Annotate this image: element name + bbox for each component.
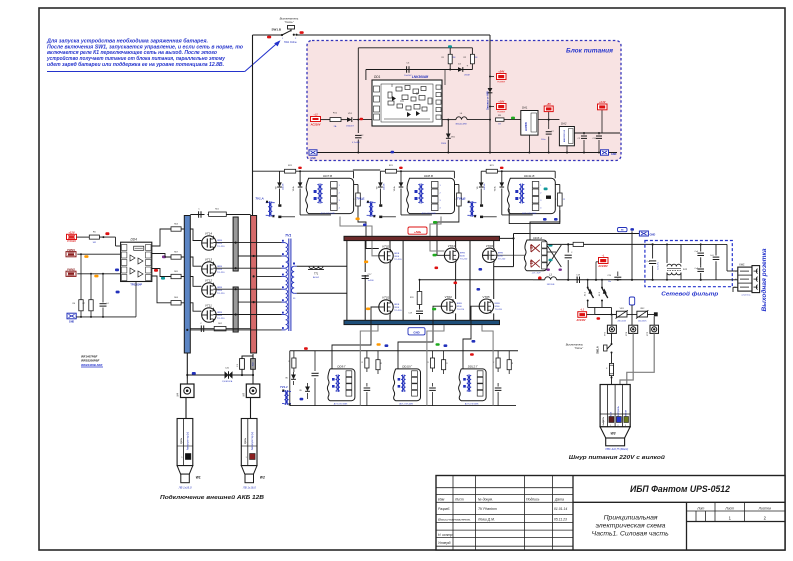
svg-text:2M: 2M — [475, 57, 478, 59]
resistor R2 — [463, 48, 477, 70]
svg-text:Разраб.: Разраб. — [438, 507, 450, 511]
resistor pair DD9.Г — [362, 351, 383, 374]
svg-text:K1.1: K1.1 — [585, 292, 587, 296]
gate resistor R07 — [152, 251, 202, 266]
tick purple dd4 — [162, 256, 166, 259]
tick blue bm1 — [385, 344, 389, 347]
title block grid — [436, 476, 785, 551]
svg-text:3206: 3206 — [394, 307, 400, 309]
svg-text:Н. контр.: Н. контр. — [438, 533, 453, 537]
svg-text:+ОТ_ЗСР: +ОТ_ЗСР — [531, 273, 541, 275]
label PWM2 — [66, 271, 76, 276]
svg-text:DD12.Г: DD12.Г — [468, 364, 478, 368]
svg-text:TV1: TV1 — [285, 234, 291, 238]
svg-text:W2: W2 — [260, 476, 265, 480]
svg-text:VT02: VT02 — [382, 244, 390, 248]
wire feed DD8 — [353, 169, 380, 171]
power supply block Блок питания — [307, 41, 621, 161]
capacitor C16 — [100, 274, 110, 317]
svg-text:IRFB: IRFB — [394, 304, 400, 306]
svg-text:DD11.В: DD11.В — [524, 174, 534, 178]
wire PWM1 — [77, 253, 120, 255]
svg-text:GND: GND — [69, 321, 75, 324]
svg-text:VT01: VT01 — [382, 296, 390, 300]
resistor R supply DD11.В — [481, 165, 555, 178]
bus bar +U horizontal — [344, 236, 500, 240]
bus bar red vertical — [251, 216, 257, 354]
svg-text:+5V: +5V — [547, 103, 552, 106]
svg-text:AC230V: AC230V — [575, 319, 585, 322]
transformer TV1.3 — [280, 385, 291, 406]
driver module row DD7.B — [0, 0, 1, 1]
shunt R44 — [251, 359, 256, 370]
inductor L4 — [455, 113, 491, 126]
svg-text:Шнур питания 220V с вилкой: Шнур питания 220V с вилкой — [569, 454, 666, 461]
label +24V — [489, 70, 506, 83]
tick orange pwm1 — [84, 255, 88, 258]
resistor R7 pulldown — [82, 274, 93, 317]
relay contact K1.1 — [585, 279, 594, 308]
svg-text:TO-220: TO-220 — [217, 272, 225, 274]
label AC230V relay — [596, 254, 608, 280]
bus bar gray upper — [233, 217, 238, 271]
gate wires bottom row — [332, 306, 479, 369]
terminal post W4 — [177, 379, 195, 398]
svg-text:TO-220: TO-220 — [217, 293, 225, 295]
svg-text:Левш Д.М.: Левш Д.М. — [477, 517, 495, 521]
svg-text:3206: 3206 — [394, 256, 400, 258]
wire module outputs to gates — [340, 206, 560, 256]
primary wires — [186, 242, 281, 332]
svg-text:VT05: VT05 — [482, 295, 490, 299]
zener VD-A DD8.В — [382, 171, 432, 217]
svg-text:LL4148: LL4148 — [283, 184, 285, 190]
svg-text:10R: 10R — [92, 242, 96, 244]
wire bias — [366, 69, 473, 81]
resistor R41 — [289, 351, 296, 372]
svg-text:AMS1117-3.3: AMS1117-3.3 — [563, 129, 566, 142]
svg-text:TO-220: TO-220 — [394, 259, 402, 261]
svg-text:GND: GND — [650, 233, 656, 237]
svg-text:VT04: VT04 — [448, 244, 456, 248]
wire top from SW1 to power block — [253, 34, 491, 36]
wire — [341, 119, 347, 121]
svg-text:IRFB3306B-NDF: IRFB3306B-NDF — [81, 363, 103, 367]
resistor R5 — [89, 231, 99, 244]
tick teal dd4 — [161, 277, 165, 280]
wire to IC — [353, 119, 372, 121]
wire to lug W2 — [250, 398, 252, 419]
wire feed DD8.В — [0, 0, 1, 1]
output wire inverter — [419, 279, 534, 281]
mains filter box — [645, 241, 732, 298]
svg-text:VD-А: VD-А — [292, 186, 295, 191]
svg-text:"Сеть": "Сеть" — [574, 346, 584, 350]
svg-text:Блок питания: Блок питания — [566, 48, 613, 55]
label AC230V input — [310, 113, 321, 126]
tick blue gate1 — [363, 224, 367, 227]
tick red DD7.В — [298, 167, 302, 169]
svg-text:+12V: +12V — [68, 231, 74, 235]
label +12V — [67, 234, 77, 239]
tick blue gnd mid — [391, 151, 395, 154]
svg-text:TO-220: TO-220 — [460, 258, 468, 260]
capacitor out DD12.Г — [495, 383, 502, 406]
tick orange vt01 — [366, 308, 370, 311]
svg-text:Аккумулятор [+]: Аккумулятор [+] — [251, 432, 254, 451]
svg-text:Опасные от АКБ: Опасные от АКБ — [487, 91, 490, 110]
svg-text:Выключатель: Выключатель — [566, 343, 584, 347]
resistor pair DD12.Г — [493, 351, 514, 374]
svg-text:3206: 3206 — [217, 290, 223, 292]
tick red sw1 left — [267, 36, 271, 39]
tick red bm3 — [470, 353, 474, 356]
svg-text:XP3: XP3 — [647, 331, 649, 337]
varistor VR2 — [636, 308, 648, 322]
resistor pair DD10.Г — [427, 351, 448, 374]
svg-text:4,7u/400: 4,7u/400 — [352, 142, 361, 144]
tick red — [360, 118, 364, 120]
wire feed DD11.В — [0, 0, 1, 1]
svg-text:1u/630: 1u/630 — [368, 280, 375, 282]
wire bus to battery left — [186, 353, 188, 379]
gray wire cord N — [620, 333, 633, 384]
svg-text:+АКБ: +АКБ — [414, 230, 421, 234]
net label N1 — [618, 228, 628, 232]
wire bus feed to relay — [500, 234, 514, 239]
bus bar gray lower — [233, 287, 238, 332]
svg-text:DD1: DD1 — [374, 75, 381, 79]
wire L mains — [547, 243, 654, 245]
svg-text:X2-0,47u: X2-0,47u — [658, 262, 660, 270]
svg-text:SW1.В: SW1.В — [271, 28, 281, 32]
zener VD13 — [299, 383, 310, 399]
svg-text:TV1.В: TV1.В — [457, 197, 466, 201]
svg-text:W1: W1 — [196, 476, 201, 480]
capacitor C2 — [352, 120, 364, 153]
tick green — [511, 117, 515, 120]
wire feed DD7.В — [253, 170, 280, 172]
svg-text:№ докум.: № докум. — [478, 498, 493, 502]
relay module DD6.A — [524, 236, 547, 275]
tick blue vt06 — [479, 268, 483, 271]
bus bar blue vertical — [184, 216, 190, 354]
svg-text:LNK3604M: LNK3604M — [412, 75, 429, 79]
gate resistor R06 — [152, 276, 202, 311]
svg-text:IRFB: IRFB — [495, 303, 501, 305]
label GND mains — [639, 231, 655, 237]
svg-text:TV1.А: TV1.А — [255, 197, 264, 201]
ground rail of power block — [311, 152, 617, 154]
connector XP2 — [605, 315, 617, 338]
wire IC output — [442, 70, 456, 120]
wire contacts join — [588, 308, 612, 315]
resistor gate DD7.В — [353, 185, 364, 207]
svg-text:TV1.Б: TV1.Б — [356, 197, 364, 201]
svg-text:VT14: VT14 — [205, 232, 213, 236]
svg-text:05.11.23: 05.11.23 — [554, 517, 567, 521]
svg-text:~L2: ~L2 — [313, 113, 318, 116]
svg-text:Нейтраль: Нейтраль — [616, 405, 620, 418]
diode D4 — [453, 64, 472, 77]
tick red dd4 right — [154, 269, 158, 272]
svg-text:ТТ1: ТТ1 — [314, 272, 319, 276]
svg-text:идет заряд батареи или поддерж: идет заряд батареи или поддержка ее на у… — [47, 61, 224, 68]
svg-text:GND: GND — [611, 153, 617, 156]
transistor VT13 — [202, 262, 216, 276]
fuse F2 — [606, 363, 613, 384]
ground rail left — [76, 282, 136, 318]
relay contact K1.2 — [599, 279, 608, 308]
svg-text:VT11: VT11 — [205, 304, 212, 308]
svg-text:ЛВ 1х16,0: ЛВ 1х16,0 — [178, 486, 192, 490]
svg-text:+24V: +24V — [498, 70, 504, 73]
gray return wires — [360, 325, 493, 406]
tick orange bm1 — [377, 343, 381, 346]
filter wires — [653, 244, 738, 292]
svg-text:SW1 Online: SW1 Online — [284, 41, 297, 44]
wire PWM2 — [77, 273, 120, 275]
svg-text:POWER: POWER — [67, 240, 76, 243]
svg-text:VT13: VT13 — [205, 258, 213, 262]
svg-text:20D-561K: 20D-561K — [638, 320, 647, 322]
label +5V — [544, 103, 553, 120]
transistor VT05 — [479, 299, 493, 313]
resistor R supply DD8.В — [380, 165, 454, 178]
svg-text:TO-220: TO-220 — [217, 318, 225, 320]
svg-text:3206: 3206 — [217, 315, 223, 317]
wire secondary bottom — [297, 292, 347, 294]
driver module DD10.Г — [393, 364, 421, 405]
tick red sw1 right — [300, 31, 304, 34]
svg-text:"Сеть": "Сеть" — [284, 20, 294, 24]
resistor R6 pulldown — [72, 254, 83, 317]
svg-text:LL4148: LL4148 — [484, 184, 486, 190]
svg-text:АОТ-ОЗУ-БМК: АОТ-ОЗУ-БМК — [334, 402, 348, 405]
svg-text:3206: 3206 — [217, 269, 223, 271]
IC DD1 LNK3604 — [372, 75, 442, 126]
resistor gate DD8.В — [454, 185, 465, 207]
svg-text:IRFB: IRFB — [217, 312, 223, 314]
svg-text:GND: GND — [413, 331, 419, 335]
svg-text:Принципиальная: Принципиальная — [604, 515, 659, 521]
tick red ac out — [597, 317, 601, 320]
svg-text:1N4007: 1N4007 — [346, 126, 354, 128]
svg-text:10n: 10n — [608, 281, 611, 283]
svg-text:P6KE: P6KE — [441, 143, 447, 145]
transistor VT03 — [441, 299, 455, 313]
svg-text:DA2: DA2 — [561, 122, 567, 126]
svg-text:01.01.14: 01.01.14 — [554, 507, 567, 511]
tick teal relay2 — [549, 259, 553, 262]
wire battery horizontal — [186, 374, 254, 376]
current transformer TT1 — [297, 266, 347, 268]
svg-text:POWER: POWER — [497, 111, 505, 113]
svg-text:IRFB: IRFB — [498, 252, 504, 254]
resistor gate DD11.В — [555, 185, 566, 207]
driver module DD12.Г — [459, 364, 486, 405]
svg-text:ПВС-3х0,75 (Black): ПВС-3х0,75 (Black) — [605, 447, 628, 451]
capacitor C9 — [578, 133, 588, 153]
net label +Uakb — [408, 227, 427, 234]
svg-text:1N2/5LB: 1N2/5LB — [547, 284, 555, 286]
diode VD DD8.В — [376, 171, 385, 204]
svg-text:DA1: DA1 — [522, 106, 528, 110]
svg-text:Выходная розетка: Выходная розетка — [760, 248, 768, 312]
gray wire cord PE — [627, 333, 654, 384]
svg-text:VD-А: VD-А — [393, 186, 396, 191]
diode VD DD7.В — [276, 171, 285, 204]
resistor R supply DD7.В — [280, 165, 354, 178]
svg-text:2M: 2M — [453, 57, 456, 59]
svg-text:+3.3V: +3.3V — [599, 101, 606, 104]
wire bus to battery right — [242, 354, 253, 375]
power cord connector W3 — [600, 385, 630, 451]
svg-text:W3: W3 — [610, 432, 615, 436]
svg-text:XP4: XP4 — [625, 331, 628, 337]
diode VD12 — [285, 372, 296, 385]
tick green vt03 — [432, 308, 436, 311]
svg-text:PWM1: PWM1 — [67, 248, 75, 252]
varistor VR1 — [616, 308, 628, 322]
svg-text:US1M: US1M — [464, 75, 470, 77]
svg-text:VT06: VT06 — [486, 244, 494, 248]
wire N mains — [533, 279, 653, 281]
svg-text:DD8.В: DD8.В — [424, 174, 433, 178]
svg-text:3206: 3206 — [495, 306, 501, 308]
capacitor Cx2 — [694, 266, 704, 281]
transistor VT04 — [444, 248, 458, 262]
current transformer TT1 body — [308, 270, 324, 280]
capacitor C7 — [538, 119, 559, 153]
wire mains input — [321, 119, 331, 121]
diode VD1 — [346, 113, 354, 128]
svg-text:АОТ-ОЗУ-БМК: АОТ-ОЗУ-БМК — [421, 212, 436, 215]
transformer TV1.Б — [356, 197, 382, 218]
IC DD4 — [121, 238, 152, 287]
transistor VT14 — [202, 236, 216, 250]
resistor R3 — [496, 115, 521, 126]
svg-text:TO-220: TO-220 — [394, 310, 402, 312]
tick green bm2 — [436, 343, 440, 346]
tick blue vt05 — [477, 288, 481, 291]
tick blue gate3b — [554, 218, 558, 221]
svg-text:+16V: +16V — [498, 100, 504, 103]
capacitor out DD9.Г — [364, 383, 371, 406]
label +3.3V — [598, 101, 608, 133]
wire varistor row — [595, 314, 655, 316]
tick blue bm2 — [444, 344, 448, 347]
capacitor C18 — [573, 274, 581, 283]
capacitor C relay — [565, 243, 573, 280]
svg-text:DD10.Г: DD10.Г — [402, 364, 412, 368]
inductor L3 — [545, 273, 557, 286]
transistor VT12 — [202, 283, 216, 297]
tick red upper — [435, 267, 439, 270]
svg-text:DD4: DD4 — [131, 238, 138, 242]
svg-text:Подключение внешней АКБ 12В: Подключение внешней АКБ 12В — [160, 494, 264, 501]
regulator DA2 — [559, 122, 574, 153]
decoupling bottom row — [190, 323, 250, 332]
svg-text:DD7.В: DD7.В — [323, 174, 332, 178]
junction block module3 — [546, 196, 551, 199]
battery lug W1 — [177, 419, 201, 490]
capacitor C10 — [593, 133, 603, 153]
transistor VT06 — [483, 248, 497, 262]
tick orange vt02 — [364, 261, 368, 264]
zener VD5 — [441, 119, 456, 153]
tick green vt04 — [433, 254, 437, 257]
driver module DD7.В — [306, 174, 354, 215]
battery lug W2 — [241, 419, 265, 490]
net label gnd power — [408, 328, 425, 335]
svg-text:TV1.3: TV1.3 — [280, 385, 288, 389]
svg-text:TO-220: TO-220 — [217, 246, 225, 248]
capacitor C19 snubber — [408, 305, 423, 321]
svg-text:POWER: POWER — [497, 81, 505, 83]
tick red bottom feed — [304, 347, 308, 350]
svg-text:XW1: XW1 — [738, 262, 745, 266]
svg-text:AC230V: AC230V — [310, 122, 321, 126]
tick red DD11.В — [500, 167, 504, 169]
svg-text:DD9.Г: DD9.Г — [337, 364, 346, 368]
diode VD TVS battery — [222, 368, 233, 383]
svg-text:Часть1. Силовая часть: Часть1. Силовая часть — [592, 532, 669, 538]
note underline and arrow to SW1 — [47, 40, 281, 71]
resistor R snubber mains — [573, 242, 583, 246]
tick red DD8.В — [399, 167, 403, 169]
svg-text:Восстановлена.: Восстановлена. — [438, 517, 471, 521]
tick blue bm3 — [472, 340, 476, 343]
driver module DD9.Г — [327, 364, 354, 405]
resistor R33 snubber — [410, 280, 422, 305]
svg-text:VT03: VT03 — [445, 295, 453, 299]
svg-text:Листов: Листов — [758, 506, 772, 510]
svg-text:Цепь: Цепь — [179, 437, 183, 444]
wire inverter L to relay — [494, 234, 640, 267]
label PWM1 — [66, 252, 76, 257]
svg-text:+: + — [467, 64, 469, 68]
svg-text:LM7805: LM7805 — [525, 122, 528, 131]
choke Lx1 — [666, 243, 688, 280]
svg-text:TPS2814P: TPS2814P — [130, 284, 142, 287]
transistor VT01 — [379, 300, 393, 314]
svg-text:IRFB3206PBF: IRFB3206PBF — [81, 359, 100, 363]
svg-text:Lx1: Lx1 — [683, 268, 688, 271]
regulator DA1 — [521, 106, 538, 153]
svg-text:Аккумулятор [+]: Аккумулятор [+] — [187, 432, 190, 451]
label GND left — [309, 150, 317, 160]
svg-text:IRFB: IRFB — [457, 303, 463, 305]
svg-text:Лист: Лист — [454, 498, 464, 502]
wire 3.3V out — [574, 132, 620, 134]
label GND right — [601, 150, 617, 156]
capacitor C20 — [607, 272, 621, 284]
svg-text:IRFB: IRFB — [217, 287, 223, 289]
svg-text:3B2u40-6R8: 3B2u40-6R8 — [455, 124, 467, 126]
capacitor C3 — [404, 63, 412, 78]
label GND left section — [67, 313, 76, 323]
svg-text:ЛВ 1х16,0: ЛВ 1х16,0 — [242, 486, 256, 490]
tick teal — [448, 45, 452, 48]
capacitor out DD10.Г — [429, 383, 436, 406]
connector XP3 — [647, 316, 658, 337]
svg-text:А2-Б2: А2-Б2 — [313, 276, 320, 279]
capacitor Cx1 — [646, 244, 659, 281]
junction PE — [654, 312, 658, 316]
output socket XW1 — [734, 262, 760, 296]
svg-text:AC230V: AC230V — [597, 265, 608, 268]
